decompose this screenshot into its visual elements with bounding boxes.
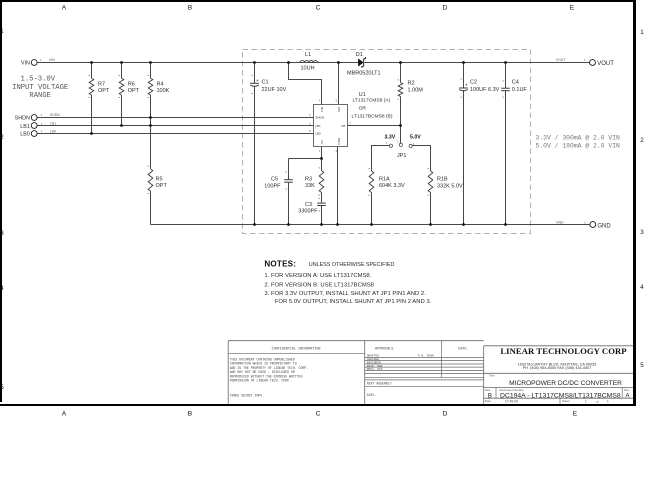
svg-text:+: + bbox=[465, 84, 468, 89]
svg-text:E: E bbox=[570, 5, 575, 12]
wire R4 leads and down to R5 bbox=[150, 63, 152, 169]
svg-text:100UF 6.3V: 100UF 6.3V bbox=[470, 87, 500, 93]
wire VOUT rail D1 cathode to VOUT terminal bbox=[365, 62, 590, 64]
svg-text:R5: R5 bbox=[156, 176, 163, 182]
svg-text:R3: R3 bbox=[305, 176, 312, 182]
sheet frame border bbox=[0, 0, 636, 406]
svg-text:L1: L1 bbox=[305, 52, 311, 58]
svg-text:B: B bbox=[188, 411, 193, 418]
svg-text:JP1: JP1 bbox=[397, 153, 406, 159]
svg-text:Date: Date bbox=[485, 399, 491, 403]
svg-text:DATE: DATE bbox=[458, 347, 466, 351]
svg-text:33K: 33K bbox=[305, 183, 315, 189]
svg-text:GND: GND bbox=[337, 137, 341, 145]
wire FB line from U1 to R2 bottom bbox=[348, 125, 401, 127]
resistor R5 bbox=[147, 166, 167, 193]
junction dot FB node bbox=[399, 124, 402, 127]
wire SHDN line bbox=[37, 117, 313, 119]
svg-text:C: C bbox=[316, 5, 321, 12]
zone letters top bbox=[62, 5, 575, 12]
svg-text:NOTES:: NOTES: bbox=[264, 260, 296, 269]
terminal GND bbox=[590, 222, 612, 230]
svg-text:604K 3.3V: 604K 3.3V bbox=[379, 183, 405, 189]
U1 reference label bbox=[352, 92, 393, 120]
svg-text:D1: D1 bbox=[356, 52, 363, 58]
svg-text:UNLESS OTHERWISE SPECIFIED: UNLESS OTHERWISE SPECIFIED bbox=[309, 262, 395, 268]
svg-text:MBR0520LT1: MBR0520LT1 bbox=[347, 71, 381, 77]
svg-text:100PF: 100PF bbox=[264, 183, 281, 189]
svg-text:APPROVALS: APPROVALS bbox=[375, 347, 393, 351]
resistor R3 bbox=[305, 168, 324, 195]
svg-text:GND: GND bbox=[597, 223, 611, 229]
resistor R7 bbox=[88, 76, 110, 98]
svg-text:LB1: LB1 bbox=[315, 124, 321, 128]
svg-text:1. FOR VERSION A: USE LT1317: 1. FOR VERSION A: USE LT1317CMS8. bbox=[264, 273, 371, 279]
svg-text:D: D bbox=[443, 411, 448, 418]
junction dot VC/C5 node bbox=[320, 157, 323, 160]
svg-text:100K: 100K bbox=[157, 88, 170, 94]
svg-text:1.00M: 1.00M bbox=[408, 88, 424, 94]
svg-text:LT1317BCMS8 (B): LT1317BCMS8 (B) bbox=[352, 113, 393, 119]
resistor R1A bbox=[368, 168, 405, 195]
svg-text:R1B: R1B bbox=[437, 177, 448, 183]
svg-text:B: B bbox=[188, 5, 193, 12]
svg-text:D: D bbox=[443, 5, 448, 12]
svg-text:1: 1 bbox=[640, 29, 644, 36]
dashed demo board outline bbox=[243, 50, 531, 234]
terminal VOUT bbox=[590, 60, 615, 67]
wire R1B bottom lead bbox=[430, 193, 432, 225]
wire GND pin column bbox=[337, 147, 339, 225]
svg-text:5.0V / 180mA @ 2.0 VIN: 5.0V / 180mA @ 2.0 VIN bbox=[536, 142, 621, 149]
diode D1 (MBR0520LT1 schottky) bbox=[347, 52, 381, 77]
input voltage range note bbox=[12, 75, 68, 100]
svg-text:LB1: LB1 bbox=[20, 124, 30, 130]
wire FB node down to JP1 center bbox=[400, 126, 402, 144]
capacitor C4 bbox=[501, 80, 527, 98]
title block address bbox=[518, 362, 597, 370]
svg-text:SHDN: SHDN bbox=[315, 116, 324, 120]
svg-text:Document Number: Document Number bbox=[500, 388, 524, 392]
terminal LB0 bbox=[20, 131, 37, 138]
svg-text:C4: C4 bbox=[512, 80, 519, 86]
svg-text:OPT: OPT bbox=[98, 88, 110, 94]
svg-text:C2: C2 bbox=[470, 80, 477, 86]
wire JP1 pin3 to R1B bbox=[412, 146, 430, 172]
svg-text:LT1317CMS8 (A): LT1317CMS8 (A) bbox=[353, 98, 391, 104]
svg-text:LB0: LB0 bbox=[315, 132, 321, 136]
svg-text:SHDN: SHDN bbox=[15, 116, 30, 122]
svg-text:GND: GND bbox=[556, 220, 564, 224]
svg-text:Sheet: Sheet bbox=[562, 399, 570, 403]
svg-text:C1: C1 bbox=[262, 80, 269, 86]
svg-text:LB0: LB0 bbox=[50, 129, 56, 133]
zone numbers left edge bbox=[0, 28, 4, 391]
svg-text:LB1: LB1 bbox=[50, 122, 56, 126]
svg-text:A: A bbox=[62, 411, 67, 418]
svg-text:2: 2 bbox=[640, 137, 644, 144]
inductor L1 bbox=[300, 52, 318, 72]
title block approvals section bbox=[365, 341, 484, 397]
svg-text:10UH: 10UH bbox=[301, 66, 315, 72]
svg-text:3300PF: 3300PF bbox=[298, 208, 318, 214]
wire C5 branch from VC node bbox=[289, 159, 322, 225]
svg-text:OPT: OPT bbox=[156, 183, 168, 189]
junction dots on VOUT rail bbox=[399, 61, 507, 64]
svg-text:OR: OR bbox=[359, 105, 367, 111]
terminal LB1 bbox=[20, 123, 37, 130]
svg-text:3. FOR 3.3V OUTPUT, INSTALL S: 3. FOR 3.3V OUTPUT, INSTALL SHUNT AT JP1… bbox=[264, 291, 426, 297]
capacitor C5 bbox=[264, 172, 293, 189]
svg-text:Rev: Rev bbox=[624, 388, 630, 392]
jumper JP1 bbox=[389, 143, 412, 159]
svg-text:2. FOR VERSION B: USE LT1317: 2. FOR VERSION B: USE LT1317BCMS8 bbox=[264, 283, 374, 289]
wire R6 leads bbox=[121, 63, 123, 126]
wire R2 leads bbox=[400, 63, 402, 126]
wire C1 leads bbox=[254, 63, 256, 225]
svg-text:PH. (408) 954-8400 FAX (408): PH. (408) 954-8400 FAX (408) 434-0507 bbox=[523, 366, 592, 370]
terminal SHDN bbox=[15, 115, 37, 122]
svg-text:4: 4 bbox=[640, 284, 644, 291]
svg-text:R7: R7 bbox=[98, 81, 105, 87]
op-amp U1 LT1317 IC body bbox=[314, 105, 348, 147]
svg-text:CONFIDENTIAL INFORMATION: CONFIDENTIAL INFORMATION bbox=[272, 347, 321, 351]
svg-text:1: 1 bbox=[607, 399, 609, 403]
svg-text:P.M. TEAM: P.M. TEAM bbox=[418, 355, 434, 358]
title block confidential text bbox=[228, 347, 365, 397]
title block size/docnum/rev row bbox=[484, 388, 633, 400]
svg-text:3.3V: 3.3V bbox=[385, 134, 396, 140]
svg-text:OPT: OPT bbox=[128, 88, 140, 94]
svg-text:ASSY-: ASSY- bbox=[367, 393, 377, 397]
wire C4 leads bbox=[505, 63, 507, 225]
wire VIN rail (top left) bbox=[37, 62, 288, 64]
wire C2 leads bbox=[463, 63, 465, 225]
svg-text:RANGE: RANGE bbox=[29, 92, 51, 100]
svg-text:332K 5.0V: 332K 5.0V bbox=[437, 183, 463, 189]
junction dots on LB1 bbox=[120, 124, 152, 127]
svg-text:PROJ. SCI: PROJ. SCI bbox=[367, 368, 383, 371]
svg-text:SW: SW bbox=[337, 107, 341, 112]
svg-text:0.1UF: 0.1UF bbox=[512, 87, 528, 93]
svg-text:R4: R4 bbox=[157, 81, 164, 87]
svg-text:2: 2 bbox=[0, 134, 4, 141]
svg-text:C3: C3 bbox=[305, 202, 312, 208]
svg-text:Title: Title bbox=[489, 374, 495, 378]
wire LB0 line bbox=[37, 133, 313, 135]
svg-text:1.5-3.0V: 1.5-3.0V bbox=[21, 75, 56, 83]
svg-text:5.0V: 5.0V bbox=[410, 134, 421, 140]
svg-text:1: 1 bbox=[0, 28, 4, 35]
svg-text:U1: U1 bbox=[359, 92, 366, 98]
svg-text:VIN: VIN bbox=[320, 107, 324, 112]
resistor R1B bbox=[427, 168, 463, 195]
svg-text:C5: C5 bbox=[271, 176, 278, 182]
svg-text:VOUT: VOUT bbox=[597, 61, 614, 67]
svg-text:C: C bbox=[316, 411, 321, 418]
resistor R4 bbox=[147, 76, 169, 98]
zone letters bottom bbox=[62, 411, 578, 418]
output ratings note bbox=[536, 135, 621, 150]
svg-text:SHDN: SHDN bbox=[50, 113, 60, 117]
notes block bbox=[264, 260, 431, 305]
svg-text:FOR 5.0V OUTPUT, INSTALL SHUNT: FOR 5.0V OUTPUT, INSTALL SHUNT AT JP1 PI… bbox=[275, 299, 432, 305]
svg-text:of: of bbox=[596, 399, 599, 403]
title block title row bbox=[484, 373, 633, 387]
svg-text:3: 3 bbox=[0, 230, 4, 237]
svg-text:3: 3 bbox=[640, 229, 644, 236]
junction dots on VIN rail bbox=[90, 61, 340, 64]
svg-text:3.3V / 300mA @ 2.0 VIN: 3.3V / 300mA @ 2.0 VIN bbox=[536, 135, 621, 142]
svg-text:MICROPOWER DC/DC CONVERTER: MICROPOWER DC/DC CONVERTER bbox=[509, 380, 622, 387]
svg-text:FB: FB bbox=[341, 124, 345, 128]
svg-text:PERMISSION OF LINEAR TECH. COR: PERMISSION OF LINEAR TECH. CORP. bbox=[230, 379, 291, 383]
svg-text:R1A: R1A bbox=[379, 177, 390, 183]
capacitor C1 (polarized) bbox=[250, 75, 286, 93]
svg-text:R6: R6 bbox=[128, 81, 135, 87]
svg-text:5: 5 bbox=[0, 384, 4, 391]
wire VIN rail under L1 to D1 anode bbox=[289, 62, 359, 64]
svg-text:LB0: LB0 bbox=[20, 132, 30, 138]
zone numbers right edge bbox=[640, 29, 644, 369]
title block date/sheet row bbox=[485, 398, 609, 404]
wire VC pin column through R3 C3 bbox=[321, 147, 323, 225]
junction dots on ground rail bbox=[253, 223, 507, 226]
svg-text:VIN: VIN bbox=[21, 60, 30, 66]
svg-text:VIN: VIN bbox=[49, 58, 55, 62]
title block outline bbox=[228, 341, 633, 404]
wire R5 bottom lead to ground rail bbox=[150, 191, 152, 225]
svg-text:17-45-06: 17-45-06 bbox=[505, 399, 518, 403]
resistor R2 bbox=[397, 80, 423, 99]
svg-text:E: E bbox=[573, 411, 578, 418]
svg-text:A: A bbox=[62, 5, 67, 12]
terminal VIN bbox=[21, 60, 37, 67]
resistor R6 bbox=[118, 76, 139, 98]
wire VIN pin feed (elbow to U1 pin 4) bbox=[289, 63, 322, 105]
capacitor C3 bbox=[298, 199, 326, 215]
wire SW pin feed (to U1 pin 5) bbox=[338, 63, 340, 105]
wire R7 leads bbox=[91, 63, 93, 134]
svg-text:Size: Size bbox=[485, 388, 491, 392]
svg-text:5: 5 bbox=[640, 362, 644, 369]
svg-text:1: 1 bbox=[585, 399, 587, 403]
svg-text:VOUT: VOUT bbox=[556, 58, 565, 62]
svg-text:NEXT ASSEMBLY: NEXT ASSEMBLY bbox=[367, 382, 392, 386]
svg-text:VC: VC bbox=[320, 139, 324, 144]
wire ground rail (bottom) bbox=[151, 224, 590, 226]
capacitor C2 (polarized) bbox=[459, 79, 499, 97]
svg-text:22UF 10V: 22UF 10V bbox=[262, 87, 287, 93]
svg-text:4: 4 bbox=[0, 285, 4, 292]
svg-text:LINEAR TECHNOLOGY CORP: LINEAR TECHNOLOGY CORP bbox=[500, 346, 626, 356]
wire LB1 line bbox=[37, 125, 313, 127]
wire JP1 pin1 to R1A bbox=[372, 146, 390, 172]
svg-text:+: + bbox=[256, 79, 259, 84]
junction dot R4-SHDN bbox=[149, 116, 152, 119]
svg-text:TRADE SECRET INFO.: TRADE SECRET INFO. bbox=[230, 394, 265, 398]
svg-text:INPUT VOLTAGE: INPUT VOLTAGE bbox=[12, 84, 68, 92]
svg-text:R2: R2 bbox=[408, 81, 415, 87]
junction dot R7-LB0 bbox=[90, 132, 93, 135]
wire R1A bottom lead bbox=[371, 193, 373, 225]
